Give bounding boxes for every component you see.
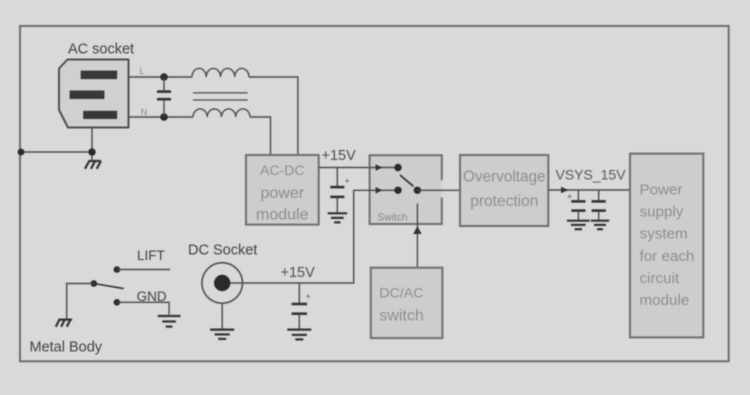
AC-DC power module U1 [246,155,319,225]
capacitor C4 (DC +15V, polarized) [292,283,311,330]
svg-text:L: L [140,66,145,76]
svg-text:module: module [640,292,690,309]
inductor L2 (choke winding, N line) [193,109,250,117]
svg-text:Power: Power [640,182,683,199]
overvoltage protection module U3 [460,155,548,226]
capacitor C3 (VSYS) [592,190,606,221]
wire DC +15V feed into switch row 2 [230,190,398,283]
ground (C4) [287,330,311,340]
svg-text:system: system [640,226,688,243]
svg-text:N: N [141,107,148,117]
svg-text:+15V: +15V [281,265,316,281]
choke core [193,93,248,100]
svg-text:module: module [256,206,309,223]
svg-text:+: + [306,292,311,302]
svg-text:+: + [345,176,350,186]
switch S1 contact row 1 (arrow + pole dot) [370,164,402,171]
svg-text:AC-DC: AC-DC [260,162,304,178]
svg-text:for each: for each [640,248,695,265]
capacitor CX1 (X-cap across L-N) [157,77,171,117]
DC socket J2 [202,263,243,304]
switch S2 GND contact and wire [114,299,170,315]
wire socket ground stem [91,128,93,162]
svg-text:supply: supply [640,203,684,220]
wire frame to socket ground [21,151,92,153]
wire L line [129,77,298,155]
capacitor C1 (+15V rail) [330,168,349,214]
switch S2 LIFT contact and wire [114,266,171,273]
svg-text:LIFT: LIFT [137,248,165,263]
svg-text:switch: switch [379,308,423,325]
switch S2 pole, lever and wire to chassis [67,280,124,319]
svg-text:+: + [567,192,572,202]
ground (C1) [328,213,347,222]
svg-text:power: power [261,185,305,202]
svg-text:Metal Body: Metal Body [30,340,103,356]
wire DC/AC switch control line with up arrow [413,204,421,268]
svg-text:Switch: Switch [378,213,408,224]
AC socket J1 [59,60,129,128]
svg-text:+15V: +15V [322,148,357,164]
capacitor C2 (VSYS, polarized) [567,190,586,221]
wire VSYS_15V to power supply system [548,187,630,194]
switch box S1 [370,155,442,224]
ground (GND contact) [158,316,181,327]
junction dot L [160,73,168,81]
inductor L1 (choke winding, L line) [192,68,249,77]
power supply system module U4 [630,154,703,338]
junction dot N [160,113,168,121]
DC/AC switch module U2 [371,268,443,338]
junction dot socket ground [88,148,95,155]
ground (DC socket) [210,330,234,339]
svg-text:Overvoltage: Overvoltage [463,169,545,186]
ground (C3) [591,221,609,230]
svg-text:circuit: circuit [640,270,680,287]
chassis ground (metal body) [56,320,72,327]
svg-text:VSYS_15V: VSYS_15V [556,167,627,183]
chassis ground (AC socket) [85,161,101,169]
wire N line [129,117,271,155]
wire DC socket ground stem [221,303,223,329]
svg-text:protection: protection [470,193,538,210]
svg-text:AC socket: AC socket [68,42,134,58]
wire +15V from AC-DC to switch [319,167,371,169]
ground (C2) [567,221,590,230]
svg-text:DC/AC: DC/AC [379,286,423,302]
junction dot on frame [18,149,25,156]
wire switch output to overvoltage protection [417,189,461,191]
svg-text:DC Socket: DC Socket [188,243,257,259]
switch S1 contact row 2 (arrow + dots + lever) [376,175,421,194]
